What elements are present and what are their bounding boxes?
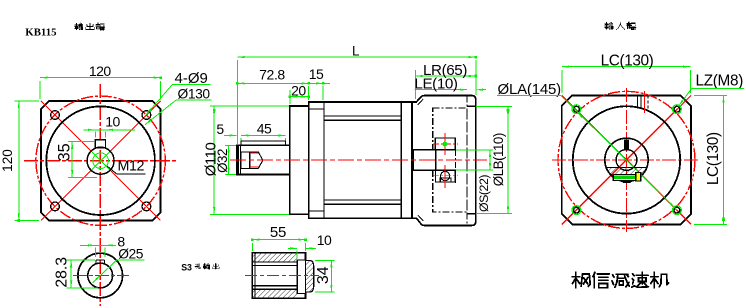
svg-text:10: 10 <box>317 232 332 248</box>
svg-text:20: 20 <box>291 83 306 99</box>
svg-text:34: 34 <box>315 266 332 284</box>
svg-text:35: 35 <box>56 143 74 161</box>
svg-text:Ø130: Ø130 <box>178 87 211 102</box>
svg-text:LC(130): LC(130) <box>705 132 722 185</box>
svg-text:ØLB(110): ØLB(110) <box>491 133 506 186</box>
svg-text:45: 45 <box>257 120 272 136</box>
svg-text:L: L <box>352 43 360 58</box>
svg-text:KB115: KB115 <box>25 27 56 39</box>
svg-text:120: 120 <box>89 63 112 79</box>
svg-text:10: 10 <box>105 113 120 129</box>
svg-text:LC(130): LC(130) <box>601 52 654 69</box>
svg-text:120: 120 <box>0 149 15 172</box>
svg-text:S3: S3 <box>181 263 192 273</box>
svg-text:LE(10): LE(10) <box>414 75 458 92</box>
svg-text:28.3: 28.3 <box>54 257 71 288</box>
svg-text:LZ(M8): LZ(M8) <box>696 73 744 90</box>
svg-text:5: 5 <box>216 121 224 137</box>
svg-text:ØS(22): ØS(22) <box>477 175 491 212</box>
svg-text:Ø32: Ø32 <box>215 149 230 173</box>
svg-text:15: 15 <box>309 66 324 82</box>
svg-text:M12: M12 <box>118 159 145 175</box>
svg-text:72.8: 72.8 <box>259 67 285 83</box>
svg-text:55: 55 <box>270 224 286 241</box>
